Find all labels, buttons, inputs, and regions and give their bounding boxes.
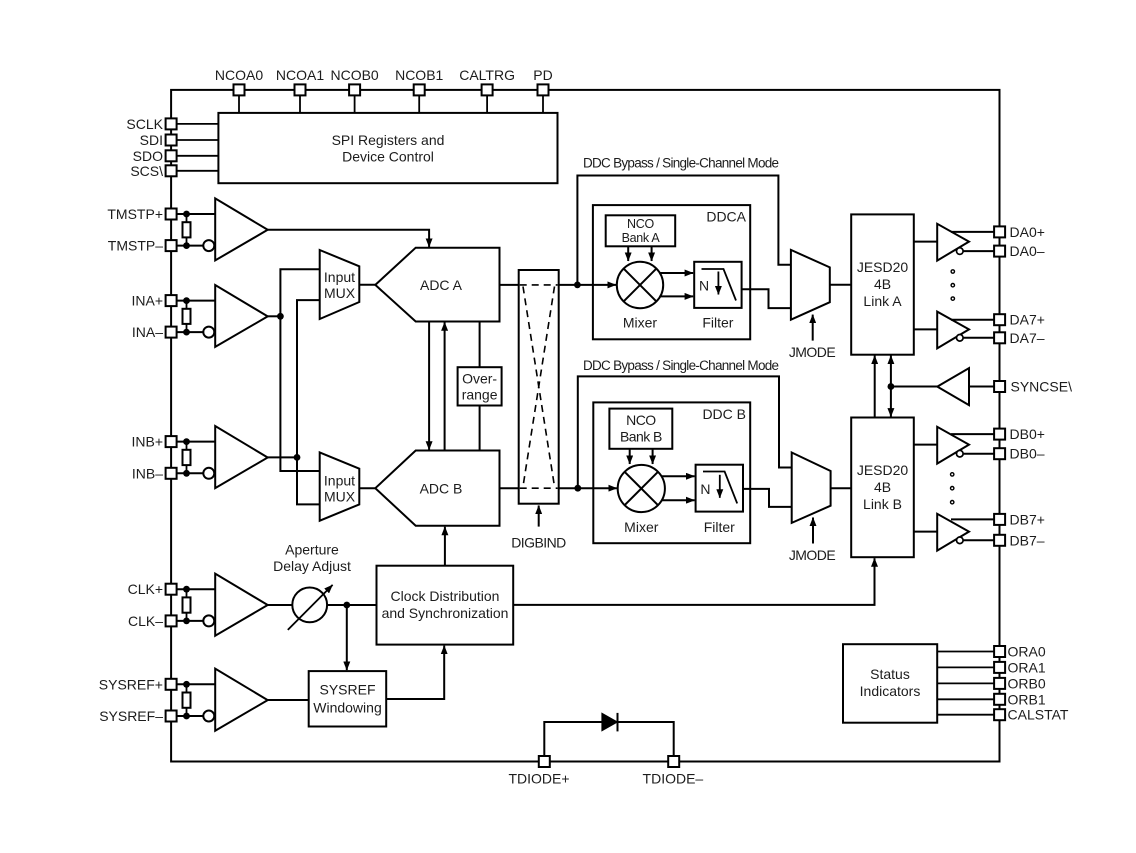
pin NCOB1 bbox=[395, 67, 443, 95]
wire PD stub bbox=[542, 95, 544, 113]
wire NCO Bank A to mixer arrow 1 bbox=[627, 246, 629, 261]
input buffer INB bbox=[203, 426, 267, 488]
block NCO Bank A bbox=[606, 215, 676, 246]
svg-text:Link B: Link B bbox=[863, 496, 902, 512]
wire CALTRG stub bbox=[486, 95, 488, 113]
wire SCS\ to SPI block bbox=[177, 170, 219, 172]
termination resistor INA bbox=[183, 301, 191, 333]
svg-text:SDI: SDI bbox=[140, 132, 163, 148]
svg-text:SCLK: SCLK bbox=[126, 116, 163, 132]
svg-text:NCOA1: NCOA1 bbox=[276, 67, 324, 83]
pin SCLK bbox=[126, 116, 176, 132]
wire ADC A to Over-range bbox=[479, 322, 481, 368]
wire mixer A to filter A lower bbox=[661, 295, 694, 297]
wire DIGBIND arrow bbox=[538, 506, 540, 527]
block JESD204B Link A bbox=[851, 214, 914, 354]
svg-text:SCS\: SCS\ bbox=[130, 163, 163, 179]
wire SYSREF windowing to clock distribution bbox=[386, 646, 444, 699]
svg-text:TMSTP+: TMSTP+ bbox=[107, 206, 163, 222]
wire SYNCSE to buffer bbox=[969, 386, 994, 388]
wire JMODE select B bbox=[789, 518, 835, 564]
wire ADC A to ADC B (down arrow) bbox=[428, 322, 430, 450]
pin ORB1 bbox=[994, 691, 1046, 707]
filter A block bbox=[694, 262, 741, 331]
block DDCA outline bbox=[593, 205, 750, 339]
wire ADC A to crossbar bbox=[500, 284, 519, 286]
wire link B to link A (up arrow) bbox=[874, 356, 876, 418]
wire filter B to JMODE mux B bbox=[743, 489, 792, 507]
crossbar dashed channel B bbox=[520, 487, 558, 489]
chip outline border bbox=[171, 90, 999, 762]
svg-text:TDIODE+: TDIODE+ bbox=[508, 771, 569, 787]
pin NCOA0 bbox=[215, 67, 263, 95]
wire CLK- to buffer bubble bbox=[177, 618, 204, 625]
crossbar dashed cross line 1 bbox=[523, 287, 555, 487]
pin INA+ bbox=[131, 293, 176, 309]
input buffer INA bbox=[203, 285, 267, 347]
wire mixer B to filter B upper bbox=[662, 475, 695, 477]
wire JESD204B to serializer B1 bbox=[914, 444, 937, 446]
svg-text:ORB1: ORB1 bbox=[1008, 691, 1046, 707]
wire SYSREF+ to buffer bbox=[177, 681, 216, 688]
label Aperture Delay Adjust bbox=[273, 542, 351, 575]
pin SYSREF+ bbox=[99, 676, 177, 692]
svg-text:Windowing: Windowing bbox=[313, 699, 381, 715]
wire DA7– bbox=[963, 337, 994, 339]
svg-text:SYNCSE\: SYNCSE\ bbox=[1011, 379, 1073, 395]
pin INB+ bbox=[131, 434, 176, 450]
wire clock distribution to JESD204B Link B bbox=[513, 558, 874, 605]
pin NCOB0 bbox=[330, 67, 378, 95]
svg-text:Delay Adjust: Delay Adjust bbox=[273, 558, 351, 574]
wire NCOB0 stub bbox=[354, 95, 356, 113]
input buffer TMSTP bbox=[203, 198, 267, 260]
svg-text:JMODE: JMODE bbox=[789, 344, 835, 360]
svg-text:Indicators: Indicators bbox=[860, 683, 921, 699]
pin SDI bbox=[140, 132, 177, 148]
wire SYSREF- to buffer bubble bbox=[177, 713, 204, 720]
termination resistor TMSTP bbox=[183, 214, 191, 246]
crossbar dashed cross line 2 bbox=[523, 287, 555, 487]
wire NCO Bank B to mixer arrow 2 bbox=[652, 449, 654, 464]
wire Input MUX A to ADC A bbox=[359, 284, 375, 286]
wire Over-range to ADC B bbox=[479, 406, 481, 451]
svg-text:Bank A: Bank A bbox=[622, 231, 661, 245]
block Input MUX A bbox=[320, 250, 360, 319]
wire INB- to buffer bubble bbox=[177, 470, 204, 477]
wire status ORA0 bbox=[937, 651, 994, 653]
svg-text:CLK–: CLK– bbox=[128, 613, 163, 629]
pin CLK– bbox=[128, 613, 177, 629]
pin INA– bbox=[132, 324, 177, 340]
wire SDO to SPI block bbox=[177, 155, 219, 157]
wire DA0– bbox=[963, 250, 994, 252]
svg-text:DIGBIND: DIGBIND bbox=[511, 535, 566, 551]
pin CLK+ bbox=[128, 581, 177, 597]
output serializer buffer B1 bbox=[937, 427, 969, 464]
svg-text:INA+: INA+ bbox=[131, 293, 163, 309]
wire NCOB1 stub bbox=[418, 95, 420, 113]
wire INA- to buffer bubble bbox=[177, 329, 204, 336]
lane ellipsis dots B bbox=[951, 473, 954, 504]
pin DA0+ bbox=[994, 224, 1045, 240]
pin DA0– bbox=[994, 243, 1045, 259]
termination resistor INB bbox=[183, 442, 191, 474]
buffer SYNCSE (leftward) bbox=[937, 368, 969, 405]
block DDC B outline bbox=[593, 402, 750, 543]
svg-text:NCO: NCO bbox=[626, 412, 656, 428]
block SYSREF Windowing bbox=[309, 671, 387, 726]
svg-text:DB7–: DB7– bbox=[1010, 532, 1045, 548]
wire filter A to JMODE mux A bbox=[742, 289, 791, 308]
wire status ORA1 bbox=[937, 666, 994, 668]
wire JESD204B to serializer A1 bbox=[914, 241, 937, 243]
wire TMSTP buffer to ADC A bbox=[268, 230, 429, 247]
svg-text:ADC B: ADC B bbox=[420, 481, 463, 497]
crossbar dashed channel A bbox=[520, 284, 558, 286]
svg-text:range: range bbox=[462, 387, 498, 403]
pin TMSTP+ bbox=[107, 206, 176, 222]
svg-text:NCOB0: NCOB0 bbox=[330, 67, 378, 83]
svg-text:ORB0: ORB0 bbox=[1008, 675, 1046, 691]
JMODE mux B bbox=[792, 453, 831, 523]
svg-text:DDC Bypass / Single-Channel Mo: DDC Bypass / Single-Channel Mode bbox=[583, 156, 779, 171]
wire status CALSTAT bbox=[937, 714, 994, 716]
svg-text:4B: 4B bbox=[874, 479, 891, 495]
svg-text:Clock Distribution: Clock Distribution bbox=[391, 588, 500, 604]
svg-text:Mixer: Mixer bbox=[624, 519, 659, 535]
wire aperture delay to clock distribution bbox=[327, 602, 376, 609]
svg-text:DA0+: DA0+ bbox=[1010, 224, 1045, 240]
svg-text:DDC B: DDC B bbox=[702, 406, 746, 422]
pin ORB0 bbox=[994, 675, 1046, 691]
wire INB to input muxes bbox=[268, 300, 320, 504]
wire CLK buffer to aperture delay bbox=[268, 604, 293, 606]
pin TMSTP– bbox=[108, 238, 177, 254]
svg-text:Aperture: Aperture bbox=[285, 542, 339, 558]
wire aperture junction to SYSREF windowing bbox=[346, 605, 348, 670]
svg-text:Status: Status bbox=[870, 666, 910, 682]
wire DB0– bbox=[963, 453, 994, 455]
wire crossbar to DDC B mixer bbox=[559, 485, 617, 492]
wire TDIODE- riser bbox=[618, 722, 674, 756]
svg-text:SDO: SDO bbox=[133, 148, 163, 164]
output serializer buffer A7 bbox=[937, 312, 969, 349]
svg-text:Mixer: Mixer bbox=[623, 314, 658, 330]
svg-text:DB0+: DB0+ bbox=[1010, 426, 1045, 442]
diode D1 bbox=[602, 713, 618, 732]
pin ORA1 bbox=[994, 659, 1046, 675]
pin CALSTAT bbox=[994, 707, 1069, 723]
pin TDIODE- bbox=[643, 756, 704, 787]
wire JESD204B to serializer A7 bbox=[914, 328, 937, 330]
block ADC B bbox=[375, 451, 499, 526]
block Over-range bbox=[458, 367, 502, 405]
wire INA+ to buffer bbox=[177, 297, 216, 304]
wire INA to input muxes bbox=[268, 269, 320, 471]
pin INB– bbox=[132, 465, 177, 481]
mixer A bbox=[617, 262, 663, 331]
svg-text:SPI Registers and: SPI Registers and bbox=[332, 132, 445, 148]
svg-text:DA0–: DA0– bbox=[1010, 243, 1045, 259]
JMODE mux A bbox=[791, 250, 830, 320]
lane ellipsis dots A bbox=[951, 270, 954, 301]
svg-text:Input: Input bbox=[324, 473, 355, 489]
wire status ORB1 bbox=[937, 698, 994, 700]
wire DB0+ bbox=[951, 433, 994, 435]
mixer B bbox=[618, 465, 665, 535]
wire JMODE mux B to JESD204B Link B bbox=[831, 487, 852, 489]
wire JMODE mux A to JESD204B Link A bbox=[830, 284, 851, 286]
svg-text:DB7+: DB7+ bbox=[1010, 511, 1045, 527]
pin DA7– bbox=[994, 330, 1045, 346]
wire JMODE select A bbox=[789, 315, 835, 360]
svg-text:NCOA0: NCOA0 bbox=[215, 67, 263, 83]
svg-text:and Synchronization: and Synchronization bbox=[382, 605, 509, 621]
aperture delay adjust circle bbox=[288, 585, 333, 630]
pin ORA0 bbox=[994, 644, 1046, 660]
wire DA7+ bbox=[951, 319, 994, 321]
wire TMSTP+ to buffer bbox=[177, 211, 216, 218]
svg-text:CLK+: CLK+ bbox=[128, 581, 163, 597]
svg-text:Filter: Filter bbox=[702, 314, 733, 330]
wire NCOA1 stub bbox=[299, 95, 301, 113]
svg-text:MUX: MUX bbox=[324, 285, 356, 301]
svg-text:Input: Input bbox=[324, 269, 355, 285]
termination resistor CLK bbox=[183, 589, 191, 621]
svg-text:ADC A: ADC A bbox=[420, 277, 463, 293]
svg-text:Bank B: Bank B bbox=[620, 428, 662, 444]
wire mixer B to filter B lower bbox=[662, 499, 695, 501]
crossbar DIGBIND block bbox=[519, 270, 559, 504]
wire TDIODE+ riser bbox=[544, 722, 602, 756]
wire JESD204B to serializer B7 bbox=[914, 531, 937, 533]
pin SYSREF– bbox=[99, 708, 176, 724]
svg-text:MUX: MUX bbox=[324, 489, 356, 505]
filter B block bbox=[696, 465, 743, 536]
svg-text:Filter: Filter bbox=[704, 519, 735, 535]
wire Input MUX B to ADC B bbox=[359, 487, 375, 489]
block SPI Registers and Device Control bbox=[218, 113, 557, 183]
wire NCOA0 stub bbox=[238, 95, 240, 113]
input buffer SYSREF bbox=[203, 669, 267, 731]
svg-text:Over-: Over- bbox=[462, 371, 497, 387]
block Input MUX B bbox=[320, 452, 360, 520]
pin DB7+ bbox=[994, 511, 1045, 527]
pin DA7+ bbox=[994, 312, 1045, 328]
svg-text:JMODE: JMODE bbox=[789, 547, 835, 563]
wire DB7+ bbox=[951, 518, 994, 520]
wire DB7– bbox=[963, 539, 994, 541]
wire DDC bypass A bbox=[577, 176, 791, 285]
wire clock distribution to ADC B bbox=[444, 527, 446, 566]
svg-text:Link A: Link A bbox=[863, 293, 902, 309]
pin DB7– bbox=[994, 532, 1045, 548]
svg-text:ORA0: ORA0 bbox=[1008, 644, 1046, 660]
termination resistor SYSREF bbox=[183, 684, 191, 716]
pin TDIODE+ bbox=[508, 756, 569, 787]
wire ADC B to crossbar bbox=[500, 487, 519, 489]
pin PD bbox=[533, 67, 552, 95]
wire INB+ to buffer bbox=[177, 438, 216, 445]
svg-text:SYSREF: SYSREF bbox=[319, 681, 375, 697]
wire SYSREF buffer to SYSREF windowing bbox=[268, 699, 309, 701]
wire SCLK to SPI block bbox=[177, 123, 219, 125]
wire NCO Bank B to mixer arrow 1 bbox=[629, 449, 631, 464]
svg-text:DA7–: DA7– bbox=[1010, 330, 1045, 346]
block NCO Bank B bbox=[609, 409, 672, 449]
pin SCS\ bbox=[130, 163, 176, 179]
wire SYNCSE buffer to links bbox=[891, 386, 937, 388]
svg-text:JESD20: JESD20 bbox=[857, 462, 909, 478]
svg-text:DDC Bypass / Single-Channel Mo: DDC Bypass / Single-Channel Mode bbox=[583, 358, 779, 373]
block JESD204B Link B bbox=[851, 418, 914, 558]
wire NCO Bank A to mixer arrow 2 bbox=[651, 246, 653, 261]
svg-text:INA–: INA– bbox=[132, 324, 163, 340]
svg-text:NCO: NCO bbox=[627, 217, 654, 231]
input buffer CLK bbox=[203, 574, 267, 636]
pin DB0– bbox=[994, 446, 1045, 462]
wire TMSTP- to buffer bubble bbox=[177, 242, 204, 249]
svg-text:NCOB1: NCOB1 bbox=[395, 67, 443, 83]
wire mixer A to filter A upper bbox=[661, 272, 694, 274]
block Clock Distribution and Synchronization bbox=[377, 566, 514, 645]
svg-text:Device Control: Device Control bbox=[342, 149, 434, 165]
wire SDI to SPI block bbox=[177, 139, 219, 141]
pin CALTRG bbox=[459, 67, 515, 95]
svg-text:PD: PD bbox=[533, 67, 552, 83]
svg-text:SYSREF+: SYSREF+ bbox=[99, 676, 163, 692]
svg-text:INB–: INB– bbox=[132, 465, 163, 481]
wire link A-B double arrow bbox=[888, 356, 895, 417]
svg-text:N: N bbox=[699, 278, 709, 294]
svg-text:TMSTP–: TMSTP– bbox=[108, 238, 163, 254]
pin DB0+ bbox=[994, 426, 1045, 442]
output serializer buffer A1 bbox=[937, 224, 969, 261]
pin NCOA1 bbox=[276, 67, 324, 95]
svg-text:N: N bbox=[700, 481, 710, 497]
svg-text:SYSREF–: SYSREF– bbox=[99, 708, 163, 724]
pin SDO bbox=[133, 148, 177, 164]
wire DDC bypass B bbox=[578, 376, 792, 488]
wire crossbar to DDC A mixer bbox=[559, 282, 616, 289]
svg-text:DA7+: DA7+ bbox=[1010, 312, 1045, 328]
svg-text:CALSTAT: CALSTAT bbox=[1008, 707, 1069, 723]
svg-text:4B: 4B bbox=[874, 276, 891, 292]
svg-text:INB+: INB+ bbox=[131, 434, 163, 450]
svg-text:DB0–: DB0– bbox=[1010, 446, 1045, 462]
svg-text:TDIODE–: TDIODE– bbox=[643, 771, 704, 787]
wire DA0+ bbox=[951, 231, 994, 233]
wire status ORB0 bbox=[937, 682, 994, 684]
svg-text:ORA1: ORA1 bbox=[1008, 659, 1046, 675]
block Status Indicators bbox=[843, 644, 937, 723]
svg-text:CALTRG: CALTRG bbox=[459, 67, 515, 83]
svg-text:DDCA: DDCA bbox=[706, 209, 746, 225]
pin SYNCSE bbox=[994, 379, 1072, 395]
block ADC A bbox=[375, 248, 499, 322]
wire CLK+ to buffer bbox=[177, 586, 216, 593]
wire ADC B to ADC A (up arrow) bbox=[444, 322, 446, 450]
svg-text:JESD20: JESD20 bbox=[857, 259, 909, 275]
output serializer buffer B7 bbox=[937, 514, 969, 551]
